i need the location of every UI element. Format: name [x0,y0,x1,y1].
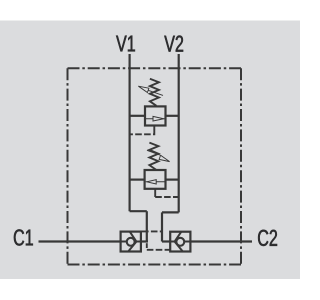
enclosure left edge dash-dot [67,68,69,264]
check valve CV1 ball [127,238,135,246]
relief valve RV2 pilot solid stub [154,189,156,198]
relief valve RV2 box [145,170,166,189]
relief valve RV2 left port wire [130,179,145,181]
pilot dashed upper between checks [142,230,162,232]
relief valve RV2 right port wire [166,179,179,181]
check valve CV2 box [170,232,190,252]
wire V1 vertical [129,54,131,211]
wire V2 staircase horizontal [162,211,179,213]
wire V2 staircase inner vertical [161,212,163,241]
wire between left check and inner vertical [141,240,148,242]
wire between inner vertical and right check [162,240,171,242]
pilot dashed stub below inner vertical [146,243,148,250]
relief valve RV2 spring [149,143,158,170]
wire V1 staircase horizontal [130,210,147,212]
wire C1 horizontal [39,240,122,242]
label C1 [14,229,33,245]
relief valve RV1 box [145,106,166,125]
wire V2 vertical [178,54,180,212]
relief valve RV1 internal arrow [146,116,165,121]
enclosure right edge dash-dot [240,68,242,264]
label V1 [116,36,135,52]
check valve CV2 seat [175,232,183,252]
relief valve RV1 spring [150,79,159,106]
check valve CV1 line to right edge [136,241,141,243]
check valve CV1 internal line left [120,241,128,243]
pilot dashed lower between checks [147,249,171,251]
relief valve RV1 pilot solid stub [153,126,155,129]
wire V1 staircase inner vertical [146,211,148,242]
check valve CV2 internal line right [184,241,191,243]
check valve CV1 seat [128,232,136,252]
label C2 [258,230,277,246]
relief valve RV1 right port wire [166,115,179,117]
relief valve RV2 adjust arrow [147,150,170,161]
check valve CV2 line to left edge [170,241,175,243]
relief valve RV2 internal arrow [146,180,165,184]
enclosure top edge dash-dot [68,67,242,69]
wire C2 horizontal [190,240,252,242]
relief valve RV1 left port wire [130,115,145,117]
relief valve RV1 pilot dashed [130,129,155,134]
check valve CV2 ball [176,238,184,246]
relief valve RV1 adjust arrow [138,86,163,95]
relief valve RV2 pilot dashed [155,196,179,198]
enclosure bottom edge dash-dot [68,264,242,266]
label V2 [164,36,183,52]
check valve CV1 box [121,232,141,252]
